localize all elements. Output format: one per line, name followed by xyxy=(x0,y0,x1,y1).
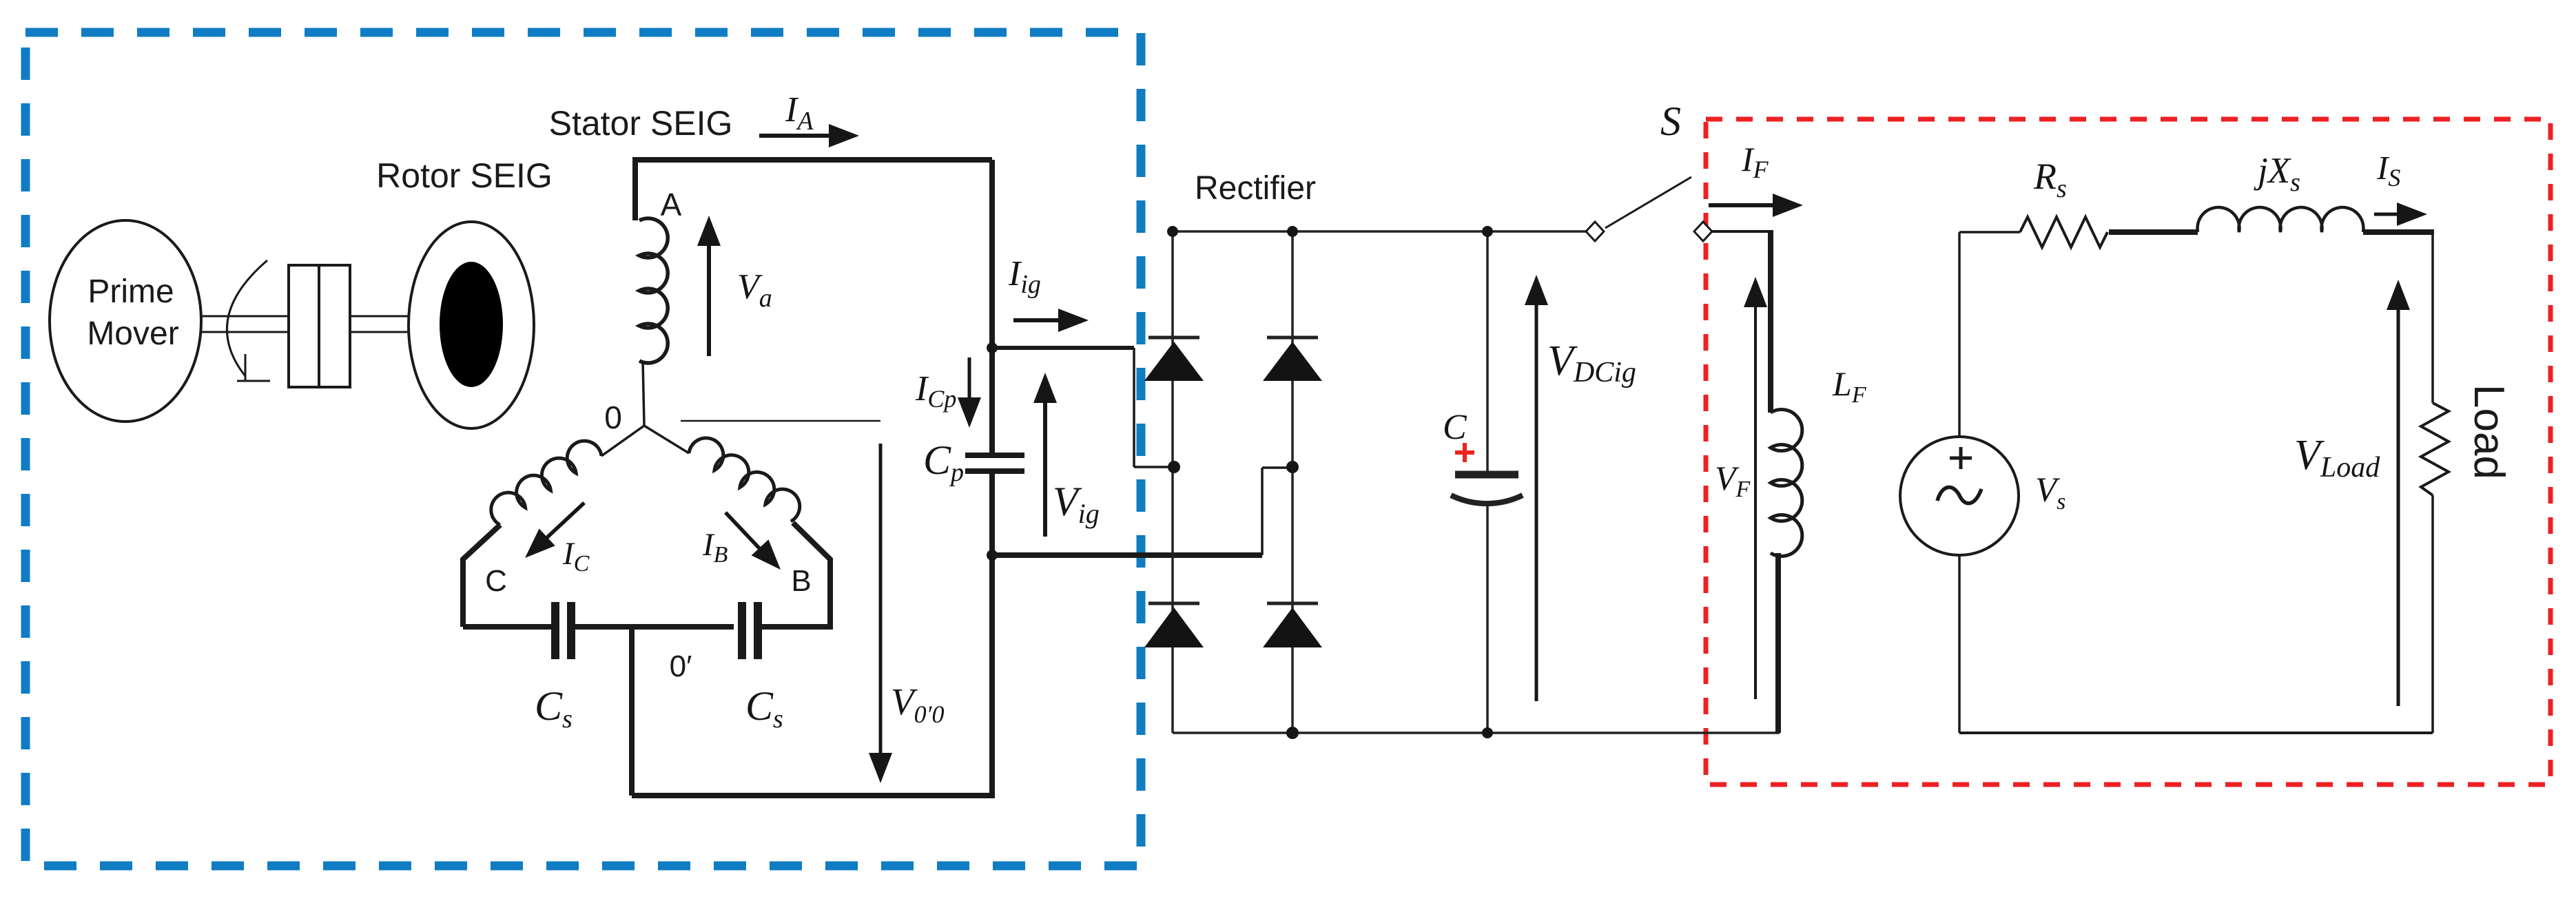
svg-text:0′: 0′ xyxy=(670,650,692,683)
svg-text:C: C xyxy=(1443,408,1467,447)
svg-text:Rotor SEIG: Rotor SEIG xyxy=(376,156,553,195)
svg-text:Load: Load xyxy=(2465,384,2513,479)
svg-text:C: C xyxy=(485,564,507,598)
svg-text:Stator SEIG: Stator SEIG xyxy=(549,104,733,143)
svg-text:A: A xyxy=(661,187,682,222)
svg-text:Mover: Mover xyxy=(87,315,178,352)
svg-text:Rectifier: Rectifier xyxy=(1195,170,1316,207)
svg-text:B: B xyxy=(791,564,811,598)
svg-text:0: 0 xyxy=(604,399,622,435)
svg-text:S: S xyxy=(1660,98,1681,144)
svg-text:Prime: Prime xyxy=(87,273,174,310)
